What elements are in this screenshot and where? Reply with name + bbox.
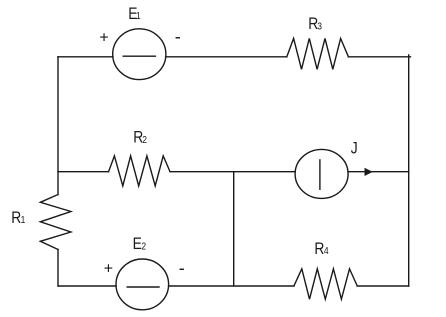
wire left vertical upper	[57, 57, 59, 195]
resistor R2	[109, 156, 170, 186]
label R2	[133, 129, 143, 147]
wire E2 to R4	[169, 285, 295, 287]
svg-text:4: 4	[324, 246, 329, 257]
wire branch vertical	[233, 172, 235, 286]
svg-text:+: +	[99, 29, 108, 46]
wire R3 to top-right corner	[348, 56, 410, 58]
svg-text:R: R	[314, 240, 324, 258]
svg-text:2: 2	[141, 241, 146, 252]
label R3	[308, 15, 318, 33]
resistor R3	[287, 38, 349, 69]
svg-text:+: +	[104, 260, 113, 277]
label R1	[11, 209, 21, 227]
voltage source E2	[116, 259, 169, 310]
wire bottom-left to E2	[58, 285, 116, 287]
svg-text:1: 1	[21, 214, 26, 225]
resistor R1	[40, 195, 71, 250]
label E2	[133, 235, 142, 253]
arrow of current source J	[365, 168, 373, 176]
label E1	[128, 5, 137, 23]
wire right vertical	[408, 55, 410, 286]
wire left vertical lower	[57, 250, 59, 287]
svg-text:J: J	[351, 140, 358, 158]
svg-text:E: E	[133, 235, 142, 253]
wire R2 to J	[170, 171, 295, 173]
current source J	[295, 149, 348, 198]
resistor R4	[294, 269, 357, 299]
wire R4 to bottom-right corner	[357, 285, 409, 287]
svg-text:1: 1	[136, 10, 141, 21]
wire top-left to E1	[58, 56, 113, 58]
svg-text:3: 3	[317, 21, 322, 32]
label R4	[314, 240, 324, 258]
wire middle left to R2	[58, 171, 109, 173]
svg-text:-: -	[179, 258, 185, 278]
label J	[351, 140, 358, 158]
wire J to right vertical	[348, 171, 409, 173]
svg-text:-: -	[175, 27, 181, 47]
svg-text:2: 2	[142, 134, 147, 145]
voltage source E1	[113, 29, 166, 80]
wire E1 to R3	[166, 56, 287, 58]
